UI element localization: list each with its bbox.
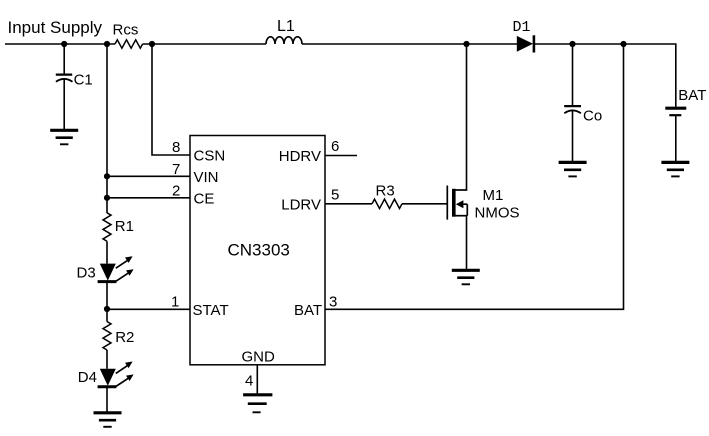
wire: top rail from Rcs to L1 [143, 43, 266, 45]
inductor L1 [266, 18, 302, 44]
resistor R3 [372, 182, 402, 208]
svg-text:BAT: BAT [678, 87, 706, 104]
wire: R1 to D3 [106, 241, 108, 263]
svg-text:R3: R3 [376, 182, 395, 199]
wire: BAT pin 3 to feedback node [325, 44, 624, 309]
svg-text:Co: Co [583, 108, 602, 125]
wire: CSN branch from rail down and right to pin 8 [152, 44, 190, 155]
node: CSN branch junction [149, 41, 155, 47]
wire: M1 drain up to rail [466, 44, 468, 190]
ground: below IC GND pin [243, 395, 272, 413]
wire: STAT pin wire [107, 308, 190, 310]
svg-text:R2: R2 [115, 329, 134, 346]
svg-text:1: 1 [171, 293, 179, 310]
svg-text:LDRV: LDRV [281, 196, 321, 213]
ground: below C1 [50, 130, 78, 144]
svg-text:C1: C1 [74, 71, 93, 88]
pin 8 label CSN [172, 139, 225, 165]
resistor Rcs [113, 22, 143, 49]
svg-text:Rcs: Rcs [113, 22, 139, 39]
wire: D4 to ground [106, 387, 108, 413]
svg-text:VIN: VIN [194, 169, 219, 186]
svg-text:CSN: CSN [194, 148, 226, 165]
wire: R2 to D4 [106, 350, 108, 369]
LED D4 [78, 362, 134, 387]
wire: GND pin 4 stub [256, 365, 258, 395]
svg-text:Input Supply: Input Supply [8, 18, 103, 37]
diode D1 [513, 19, 534, 52]
wire: top rail from D1 cathode to BAT corner, down to battery [535, 44, 676, 107]
node: VIN branch junction [104, 41, 110, 47]
capacitor C1 [56, 44, 93, 130]
ground: below Co [559, 162, 587, 176]
svg-text:D3: D3 [77, 265, 96, 282]
node: BAT feedback junction [620, 41, 626, 47]
ground: below D4 [94, 413, 122, 427]
wire: left branch x=107 from rail down to R1 [106, 44, 108, 213]
svg-text:CN3303: CN3303 [228, 241, 290, 260]
node: VIN tap [104, 173, 110, 179]
svg-text:M1: M1 [483, 187, 504, 204]
svg-text:CE: CE [194, 190, 215, 207]
svg-text:R1: R1 [115, 218, 134, 235]
transistor M1 NMOS [447, 186, 519, 222]
wire: HDRV pin 6 stub [325, 155, 357, 157]
svg-text:4: 4 [245, 373, 253, 390]
svg-text:BAT: BAT [294, 302, 322, 319]
svg-text:GND: GND [242, 349, 276, 366]
node: STAT tap [104, 306, 110, 312]
wire: top rail from input to Rcs [5, 43, 115, 45]
svg-text:2: 2 [172, 182, 180, 199]
wire: M1 source down to ground [466, 216, 468, 271]
svg-text:8: 8 [172, 139, 180, 156]
LED D3 [77, 256, 134, 281]
wire: CE pin wire [107, 197, 190, 199]
battery BAT [665, 87, 706, 162]
svg-text:NMOS: NMOS [475, 205, 520, 222]
pin 6 label HDRV [279, 138, 340, 165]
svg-text:L1: L1 [277, 18, 295, 35]
node: CE tap [104, 195, 110, 201]
svg-text:HDRV: HDRV [279, 148, 321, 165]
wire: VIN pin wire [107, 175, 190, 177]
wire: R3 to M1 gate [402, 203, 447, 205]
resistor R2 [103, 322, 134, 350]
wire: top rail from L1 to D1 anode [302, 43, 517, 45]
IC U1 CN3303 body [190, 136, 325, 365]
ground: below battery [661, 162, 689, 176]
pin 7 label VIN [172, 161, 219, 186]
svg-text:D4: D4 [78, 369, 97, 386]
ground: below M1 [452, 270, 480, 284]
pin 3 label BAT [294, 293, 337, 319]
node: M1 drain junction [463, 41, 469, 47]
svg-text:5: 5 [331, 186, 339, 203]
svg-text:3: 3 [329, 293, 337, 310]
node: Co junction [569, 41, 575, 47]
wire: D3 to STAT node to R2 [106, 282, 108, 322]
capacitor Co [564, 44, 602, 162]
resistor R1 [103, 213, 134, 241]
pin 1 label STAT [171, 293, 229, 319]
wire: LDRV pin 5 to R3 [325, 203, 372, 205]
svg-text:6: 6 [331, 138, 339, 155]
svg-text:7: 7 [172, 161, 180, 178]
svg-text:STAT: STAT [193, 302, 229, 319]
pin 4 label GND [242, 349, 276, 390]
node: input/C1 junction [61, 41, 67, 47]
svg-text:D1: D1 [513, 19, 531, 36]
pin 5 label LDRV [281, 186, 339, 213]
pin 2 label CE [172, 182, 214, 207]
